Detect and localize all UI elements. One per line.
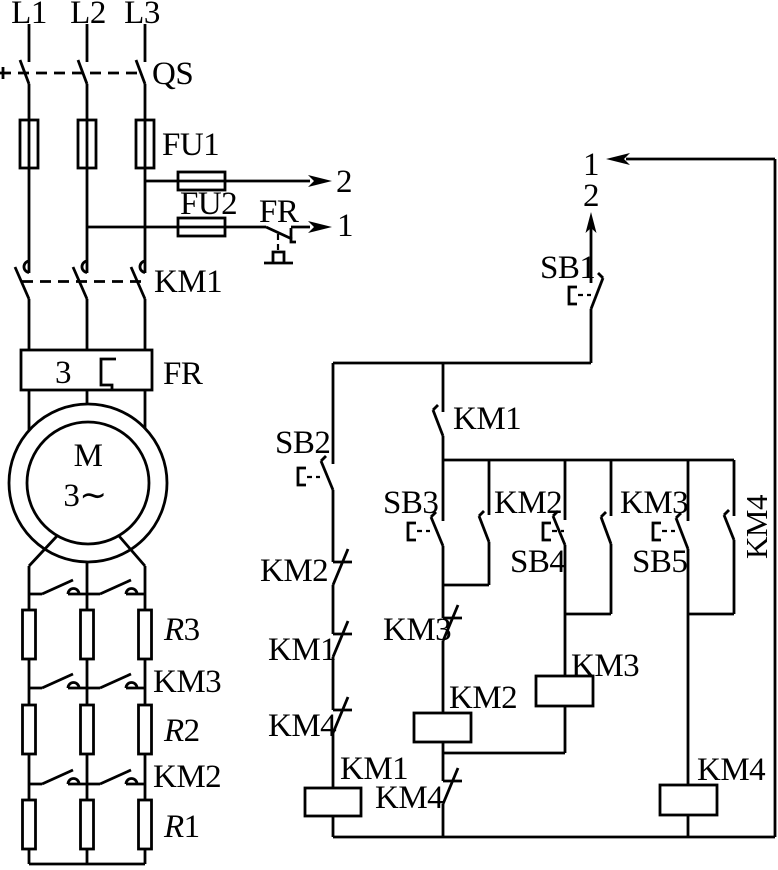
svg-text:SB5: SB5: [632, 544, 687, 580]
wire FR box to motor lead 2: [86, 390, 89, 404]
thermal relay FR heater symbol: [264, 252, 293, 263]
resistor R3 pole 3: [139, 610, 152, 659]
svg-text:KM4: KM4: [375, 780, 443, 816]
wire L3 QS to KM1: [144, 84, 147, 273]
wire FR box to motor lead 1: [28, 390, 31, 431]
switch QS pole 1 blade: [20, 60, 29, 84]
resistor R3 pole 2: [81, 610, 94, 659]
short contact row 1 left arc: [68, 589, 79, 595]
wire FR to arrow 1: [291, 226, 310, 229]
motor M inner circle: [27, 422, 149, 544]
rotor column 1 mid1: [28, 659, 31, 705]
svg-text:KM1: KM1: [453, 401, 521, 437]
resistor R2 pole 2: [81, 705, 94, 754]
rotor column 3 lower: [144, 849, 147, 864]
short contact row 1 left blade: [42, 580, 73, 594]
coil KM4: [660, 785, 717, 815]
pushbutton SB2 blade: [321, 461, 333, 490]
wire L3 incoming: [144, 24, 147, 62]
contact KM2 NO blade: [479, 516, 489, 542]
contact KM4 NC blade: [333, 697, 348, 733]
pushbutton SB4 blade: [553, 516, 565, 545]
bottom bus of control: [333, 836, 775, 839]
wire bus to KM4 NO: [733, 460, 736, 516]
contact KM4 NO blade tick: [724, 510, 729, 515]
svg-text:KM4: KM4: [739, 494, 774, 559]
svg-text:SB2: SB2: [275, 425, 330, 461]
pushbutton SB5 actuator E: [653, 523, 661, 540]
fuse FU1 pole 2: [78, 120, 96, 168]
svg-text:KM4: KM4: [697, 752, 765, 788]
contact KM4 NO blade: [724, 515, 734, 540]
svg-text:KM3: KM3: [153, 664, 221, 700]
contact KM4 NC bar: [333, 709, 352, 712]
short contact row 1 right stub: [87, 593, 145, 596]
pushbutton SB4 actuator E: [543, 523, 551, 540]
contact KM4 NC lower bar: [443, 780, 462, 783]
resistor R2 pole 1: [23, 705, 36, 754]
svg-text:SB1: SB1: [540, 250, 595, 286]
wire KM1 NC to KM4 NC: [332, 657, 335, 710]
svg-text:3∼: 3∼: [63, 478, 106, 514]
fuse FU1 pole 3: [136, 120, 154, 168]
pushbutton SB3 actuator dashes: [417, 530, 430, 532]
svg-text:L2: L2: [70, 0, 106, 31]
wire L2 incoming: [86, 24, 89, 62]
contactor KM2 row left blade: [42, 770, 73, 784]
coil KM2: [414, 713, 471, 742]
svg-text:QS: QS: [152, 56, 193, 92]
contactor KM2 row left stub: [29, 783, 87, 786]
contactor KM3 row left blade: [42, 674, 73, 688]
switch QS pole 2 blade: [78, 60, 87, 84]
wire SB1 lower lead: [590, 309, 593, 363]
rotor column 3 mid1: [144, 659, 147, 705]
wire KM2 coil to junction: [442, 742, 445, 753]
switch QS linkage dashed: [0, 72, 141, 75]
switch QS pole 3 blade: [136, 60, 145, 84]
wire tap line 1: [87, 226, 266, 229]
wire SB4 join to KM3 coil: [564, 614, 567, 676]
coil KM1: [305, 788, 361, 816]
resistor R1 pole 3: [139, 800, 152, 849]
contactor KM2 row right blade: [100, 770, 131, 784]
svg-text:KM2: KM2: [260, 553, 328, 589]
wire right edge vertical: [774, 159, 777, 837]
contact KM3 NO blade tick: [601, 512, 606, 517]
thermal relay FR bracket symbol: [101, 359, 116, 391]
wire L1 incoming: [28, 24, 31, 62]
contactor KM2 row right stub: [87, 783, 145, 786]
contact KM2 NC blade: [333, 549, 348, 585]
pushbutton SB3 blade: [431, 517, 443, 546]
svg-text:KM1: KM1: [268, 632, 336, 668]
pushbutton SB1 blade tick: [598, 273, 603, 278]
wire top right horizontal: [626, 158, 775, 161]
wire KM4 NC to bus: [442, 804, 445, 837]
wire SB1 upper lead: [590, 228, 593, 283]
pushbutton SB1 blade: [591, 278, 603, 309]
svg-text:KM1: KM1: [154, 264, 222, 300]
svg-text:L3: L3: [124, 0, 160, 31]
pushbutton SB5 actuator dashes: [662, 530, 675, 532]
thermal relay FR contact blade: [266, 227, 292, 239]
svg-text:R3: R3: [163, 612, 200, 648]
contact KM3 NC blade: [443, 605, 458, 641]
wire L1 QS to KM1: [28, 84, 31, 273]
short contact row 1 left stub: [29, 593, 87, 596]
svg-text:M: M: [74, 438, 103, 474]
contact KM1 NC bar: [333, 633, 352, 636]
rotor column 1 lower: [28, 849, 31, 864]
wire KM1 NO upper lead: [442, 363, 445, 412]
rotor column 2 lower: [86, 849, 89, 864]
wire KM2 NO lower lead: [488, 542, 491, 585]
svg-text:KM2: KM2: [153, 759, 221, 795]
rotor lead left diagonal: [29, 536, 57, 566]
rotor column 3 mid2: [144, 754, 147, 800]
rotor column 3 upper: [144, 566, 147, 610]
contactor KM1 pole 1 blade: [15, 267, 29, 299]
contact KM2 NC bar: [333, 561, 352, 564]
thermal relay FR actuator dashed link: [277, 234, 279, 251]
wire SB5 join to KM4 coil: [687, 614, 690, 785]
short contact row 1 right arc: [126, 589, 137, 595]
wire KM3 NC to KM2 coil: [442, 641, 445, 713]
svg-text:R2: R2: [163, 713, 200, 749]
resistor R2 pole 3: [139, 705, 152, 754]
control bus horizontal: [443, 459, 734, 462]
svg-text:KM3: KM3: [383, 612, 451, 648]
wire FR box to motor lead 3: [144, 390, 147, 429]
resistor R3 pole 1: [23, 610, 36, 659]
svg-text:SB3: SB3: [383, 485, 438, 521]
contact KM2 NO blade tick: [479, 511, 484, 516]
wire tap line 2: [145, 180, 310, 183]
motor M outer circle: [9, 404, 167, 562]
svg-text:3: 3: [55, 355, 71, 391]
pushbutton SB1 actuator dashes: [578, 294, 591, 296]
rotor lead middle: [86, 562, 89, 610]
wire SB3 lower lead: [442, 546, 445, 585]
wire join SB4 KM3: [565, 613, 611, 616]
wire join SB5 KM4: [688, 613, 734, 616]
wire KM4 NO lower lead: [733, 540, 736, 614]
wire KM1 NO to bus: [442, 436, 445, 460]
svg-text:KM2: KM2: [449, 680, 517, 716]
pushbutton SB2 blade tick: [321, 456, 326, 461]
svg-text:R1: R1: [163, 809, 200, 845]
svg-text:1: 1: [337, 208, 353, 244]
wire bus to SB3: [442, 460, 445, 521]
pushbutton SB1 actuator E: [569, 287, 577, 304]
contactor KM3 row right stub: [87, 687, 145, 690]
pushbutton SB3 actuator E: [408, 523, 416, 540]
contactor KM1 pole 3 arc: [140, 261, 145, 273]
wire junction to KM4 NC: [442, 753, 445, 781]
svg-text:FU1: FU1: [162, 127, 219, 163]
wire L2 QS to KM1: [86, 84, 89, 273]
wire KM2 NC to KM1 NC: [332, 585, 335, 634]
svg-text:SB4: SB4: [510, 544, 565, 580]
wire top horizontal of control: [333, 362, 591, 365]
contact KM1 NC blade: [333, 621, 348, 657]
thermal relay FR contact hook: [291, 228, 296, 242]
contactor KM1 pole 3 blade: [131, 267, 145, 299]
rotor lead right diagonal: [119, 536, 145, 566]
resistor R1 pole 2: [81, 800, 94, 849]
fuse FU2 upper: [178, 172, 225, 190]
wire KM4 coil to bus: [687, 815, 690, 837]
wire bus to KM2 NO: [488, 460, 491, 515]
arrow left at terminal 1: [606, 153, 630, 165]
wire join SB3 KM2: [443, 584, 489, 587]
svg-text:2: 2: [583, 178, 599, 214]
switch QS handle tick: [2, 67, 5, 79]
contactor KM1 pole 2 arc: [82, 261, 87, 273]
fuse FU1 pole 1: [20, 120, 38, 168]
pushbutton SB3 blade tick: [431, 512, 436, 517]
wire KM1 coil to bus: [332, 816, 335, 837]
svg-text:KM3: KM3: [571, 648, 639, 684]
wire SB4 lower lead: [564, 545, 567, 614]
wire bus to SB5: [687, 460, 690, 521]
wire SB2 to KM2 NC: [332, 490, 335, 562]
pushbutton SB2 actuator E: [298, 468, 306, 485]
contact KM1 NO blade: [433, 410, 443, 436]
rotor column 2 mid2: [86, 754, 89, 800]
short contact row 1 right blade: [100, 580, 131, 594]
pushbutton SB2 actuator dashes: [307, 476, 320, 478]
resistor R1 pole 1: [23, 800, 36, 849]
svg-text:L1: L1: [11, 0, 47, 31]
contact KM3 NC bar: [443, 617, 462, 620]
contactor KM3 row left arc: [68, 683, 79, 689]
svg-text:KM3: KM3: [620, 485, 688, 521]
contact KM4 NC lower blade: [443, 768, 458, 804]
rotor bottom bus: [29, 863, 145, 866]
contactor KM3 row right blade: [100, 674, 131, 688]
arrow to terminal 1: [308, 221, 332, 233]
contactor KM2 row left arc: [68, 779, 79, 785]
wire bus to SB4: [564, 460, 567, 520]
pushbutton SB5 blade: [676, 518, 688, 549]
arrow up at SB1: [586, 212, 597, 233]
svg-text:2: 2: [336, 164, 352, 200]
svg-text:FR: FR: [163, 356, 203, 392]
wire left column to SB2: [332, 363, 335, 464]
rotor column 2 mid1: [86, 659, 89, 705]
contact KM1 NO blade tick: [433, 405, 438, 410]
rotor column 1 mid2: [28, 754, 31, 800]
thermal relay FR box: [21, 350, 152, 390]
contact KM3 NO blade: [601, 517, 611, 544]
contactor KM1 linkage dashed: [22, 280, 144, 283]
contactor KM2 row right arc: [126, 779, 137, 785]
wire SB5 lower lead: [687, 549, 690, 614]
contactor KM3 row right arc: [126, 683, 137, 689]
contactor KM1 pole 2 blade: [73, 267, 87, 299]
svg-text:FU2: FU2: [180, 186, 237, 222]
wire KM3 NO lower lead: [610, 544, 613, 614]
pushbutton SB4 blade tick: [553, 511, 558, 516]
wire L3 KM1 to FR box: [144, 299, 147, 350]
pushbutton SB4 actuator dashes: [552, 530, 564, 532]
wire L2 KM1 to FR box: [86, 299, 89, 350]
contactor KM3 row left stub: [29, 687, 87, 690]
rotor column 1 upper: [28, 566, 31, 610]
wire KM4 NC to KM1 coil: [332, 733, 335, 788]
svg-text:KM4: KM4: [268, 708, 336, 744]
svg-text:KM2: KM2: [494, 485, 562, 521]
wire junction horizontal: [443, 752, 565, 755]
fuse FU2 lower: [178, 218, 225, 236]
coil KM3: [536, 676, 593, 706]
wire L1 KM1 to FR box: [28, 299, 31, 350]
pushbutton SB5 blade tick: [676, 513, 681, 518]
wire KM3 coil to junction: [564, 706, 567, 753]
wire bus to KM3 NO: [610, 460, 613, 516]
contactor KM1 pole 1 arc: [24, 261, 29, 273]
svg-text:FR: FR: [259, 194, 299, 230]
arrow to terminal 2: [308, 175, 332, 187]
wire SB3 join to KM3 NC: [442, 585, 445, 618]
